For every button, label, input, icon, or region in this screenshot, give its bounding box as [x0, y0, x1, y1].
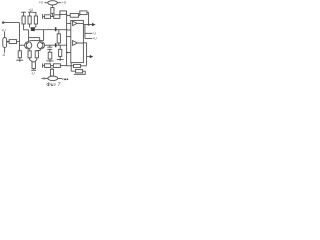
svg-text:+U: +U [1, 28, 6, 32]
ground tick R5 [46, 59, 53, 62]
wire stadium top [4, 32, 6, 38]
junction R13 R14 [51, 16, 54, 18]
wire lower output vertical [83, 43, 86, 66]
wire stub input 3 [67, 36, 71, 38]
wire supply bracket [85, 25, 92, 39]
wire box R18 left [67, 65, 74, 67]
source G2 ellipse [48, 1, 58, 5]
junction R20 R21 [51, 65, 54, 67]
node junction dot stub4 [66, 52, 68, 54]
resistor R4 [9, 40, 16, 44]
wire R3 bottom diagonal [34, 24, 36, 29]
wire to R4 [7, 41, 10, 43]
wire R7 top stub [59, 45, 61, 49]
wire R2 bottom [29, 24, 31, 28]
transistor Q2 [37, 42, 44, 49]
wire feedback left [67, 14, 71, 16]
resistor R20 [45, 64, 51, 68]
node junction dot left [7, 41, 9, 43]
wire to G2 [44, 2, 47, 4]
resistor R10 [35, 51, 38, 58]
node x66.6 vertical bus [66, 13, 68, 66]
wire horizontal y37.6 [29, 37, 40, 39]
wire R18 right [81, 65, 87, 67]
wire vertical x43.6 [43, 30, 45, 41]
wire G2 down [51, 5, 53, 8]
ground tick R7 [57, 56, 64, 61]
resistor R8 [18, 51, 21, 58]
resistor R9 [28, 51, 31, 58]
resistor R22 [50, 69, 53, 76]
rail bottom terminal dash [42, 63, 44, 67]
wire G2 right [57, 2, 61, 4]
supply terminal T1 [21, 12, 26, 16]
wire Q1 emitter down [28, 49, 31, 51]
resistor R6 vertical mid-right [57, 34, 60, 43]
wire R4 to bus [17, 41, 20, 43]
wire rail A y29.7 [35, 29, 67, 31]
transistor Q1 [25, 42, 32, 49]
node output junction dot [88, 24, 90, 26]
resistor R13 [45, 15, 51, 19]
wire R14 riser [59, 13, 61, 17]
node terminal dot 2 [67, 78, 69, 80]
terminal -U bottom [31, 69, 36, 71]
wire left vertical bus [19, 23, 21, 51]
resistor R5 [48, 52, 52, 59]
svg-text:+U: +U [39, 1, 44, 5]
transistor Q3 blob node [31, 27, 35, 31]
resistor R19 [76, 70, 83, 73]
wire stadium bottom [4, 48, 6, 53]
source G3 ellipse [48, 76, 58, 80]
wire R17 to output node [87, 13, 89, 25]
wire R9 R10 merge [30, 58, 37, 62]
wire R19 loop hook [74, 71, 85, 74]
resistor R11 [32, 62, 35, 69]
wire G3 left [44, 77, 48, 79]
node IN terminal dot [2, 21, 4, 23]
terminal marks bottom [62, 78, 64, 80]
node terminal dot 1 [64, 78, 66, 80]
wire to R3 top [34, 12, 36, 16]
wire Q2 emitter down jog [37, 49, 40, 51]
wire A1 output stub [77, 22, 83, 24]
resistor R3 [34, 16, 37, 24]
source G1 stadium [3, 38, 7, 48]
wire stub input 2 [67, 29, 71, 31]
wire input horizontal [3, 22, 19, 24]
resistor R16 feedback [70, 14, 78, 18]
svg-text:+U: +U [93, 37, 98, 41]
wire R6 bottom stub [58, 43, 60, 45]
op-amp triangle A1 [73, 21, 77, 25]
supply terminal T2 [28, 11, 34, 16]
wire R6 top stub [58, 30, 60, 34]
svg-text:+U: +U [62, 1, 67, 5]
capacitor C1 [47, 45, 52, 52]
wire riser box R19 [71, 63, 75, 72]
wire drop to R22 [51, 67, 53, 69]
wire R16 R17 [79, 13, 80, 16]
terminal dash left of R13 [42, 14, 44, 19]
resistor R2 [28, 16, 31, 24]
svg-text:-U: -U [93, 32, 97, 36]
junction dash on rail B [55, 43, 57, 47]
node lower output arrow [90, 55, 93, 58]
wire vertical x28.6 [28, 30, 30, 42]
wire R21 to bus [60, 65, 66, 67]
wire horizontal y40.6 [30, 40, 44, 42]
resistor R21 [53, 64, 60, 68]
svg-text:-U: -U [31, 72, 35, 76]
terminal dash G3 left [42, 77, 44, 79]
wire G3 right [58, 78, 62, 80]
node output terminal arrow [92, 23, 96, 26]
wire to R20 [43, 65, 45, 67]
resistor R14 [54, 15, 60, 19]
wire lower output branch [87, 56, 91, 58]
wire R12 to rail [51, 13, 53, 16]
resistor R1 [22, 16, 25, 24]
wire A2 output stub [77, 42, 83, 44]
svg-text:Фиг 7: Фиг 7 [46, 82, 60, 88]
resistor R17 feedback [80, 11, 87, 15]
wire vertical x39.7 [39, 38, 41, 42]
wire Q2 base rail y45.2 [45, 44, 67, 46]
wire stub input 1 [67, 22, 71, 24]
svg-text:-U: -U [2, 53, 6, 57]
op-amp U1 block [71, 20, 84, 62]
wire terminal to R13 [43, 16, 45, 18]
wire R1 bottom jog [24, 24, 29, 30]
op-amp triangle A2 [73, 41, 78, 46]
resistor R7 [59, 49, 62, 56]
wire stub input 4 [67, 52, 71, 54]
wire output [83, 24, 94, 26]
wire base stub Q1 [20, 44, 25, 46]
junction dash on rail A [55, 27, 57, 31]
resistor R12 [51, 8, 54, 14]
ground tick R8 [16, 58, 23, 62]
resistor R15 [60, 11, 67, 15]
resistor R18 [74, 64, 81, 67]
